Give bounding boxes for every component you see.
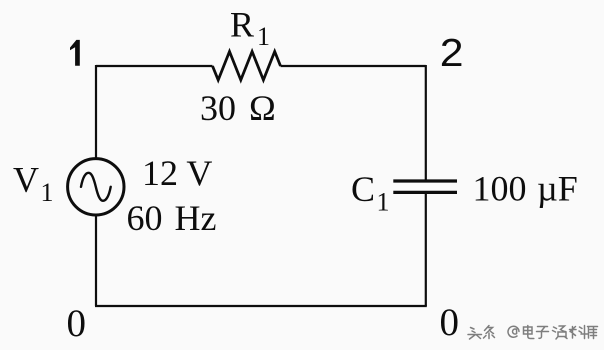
wire top-left segment (node1 to R1) [96, 65, 213, 67]
wire bottom segment [95, 305, 427, 307]
svg-text:V: V [13, 160, 39, 200]
svg-text:1: 1 [257, 22, 270, 51]
svg-text:R: R [230, 4, 254, 44]
svg-text:100 µF: 100 µF [473, 169, 578, 209]
resistor R1 [213, 4, 281, 80]
wire right upper segment (node2 to C1) [425, 65, 427, 181]
watermark 头条@电子资料库 [468, 326, 598, 340]
svg-text:0: 0 [440, 301, 460, 344]
svg-text:30 Ω: 30 Ω [200, 88, 276, 128]
svg-text:0: 0 [67, 302, 87, 345]
svg-text:1: 1 [41, 178, 54, 207]
label V1 [13, 160, 54, 208]
svg-text:2: 2 [440, 32, 464, 75]
svg-text:60 Hz: 60 Hz [127, 198, 217, 238]
wire left upper segment (node1 to V1) [95, 65, 97, 159]
node 1 [70, 40, 80, 66]
voltage source V1 (AC) [68, 159, 124, 215]
label C1 [351, 169, 390, 216]
svg-text:C: C [351, 169, 375, 209]
wire right lower segment (C1 to node0) [425, 193, 427, 307]
svg-text:12 V: 12 V [142, 153, 212, 193]
wire left lower segment (V1 to node0) [95, 216, 97, 307]
svg-text:1: 1 [377, 187, 390, 216]
capacitor C1 [393, 181, 457, 192]
wire top-right segment (R1 to node2) [281, 65, 426, 67]
